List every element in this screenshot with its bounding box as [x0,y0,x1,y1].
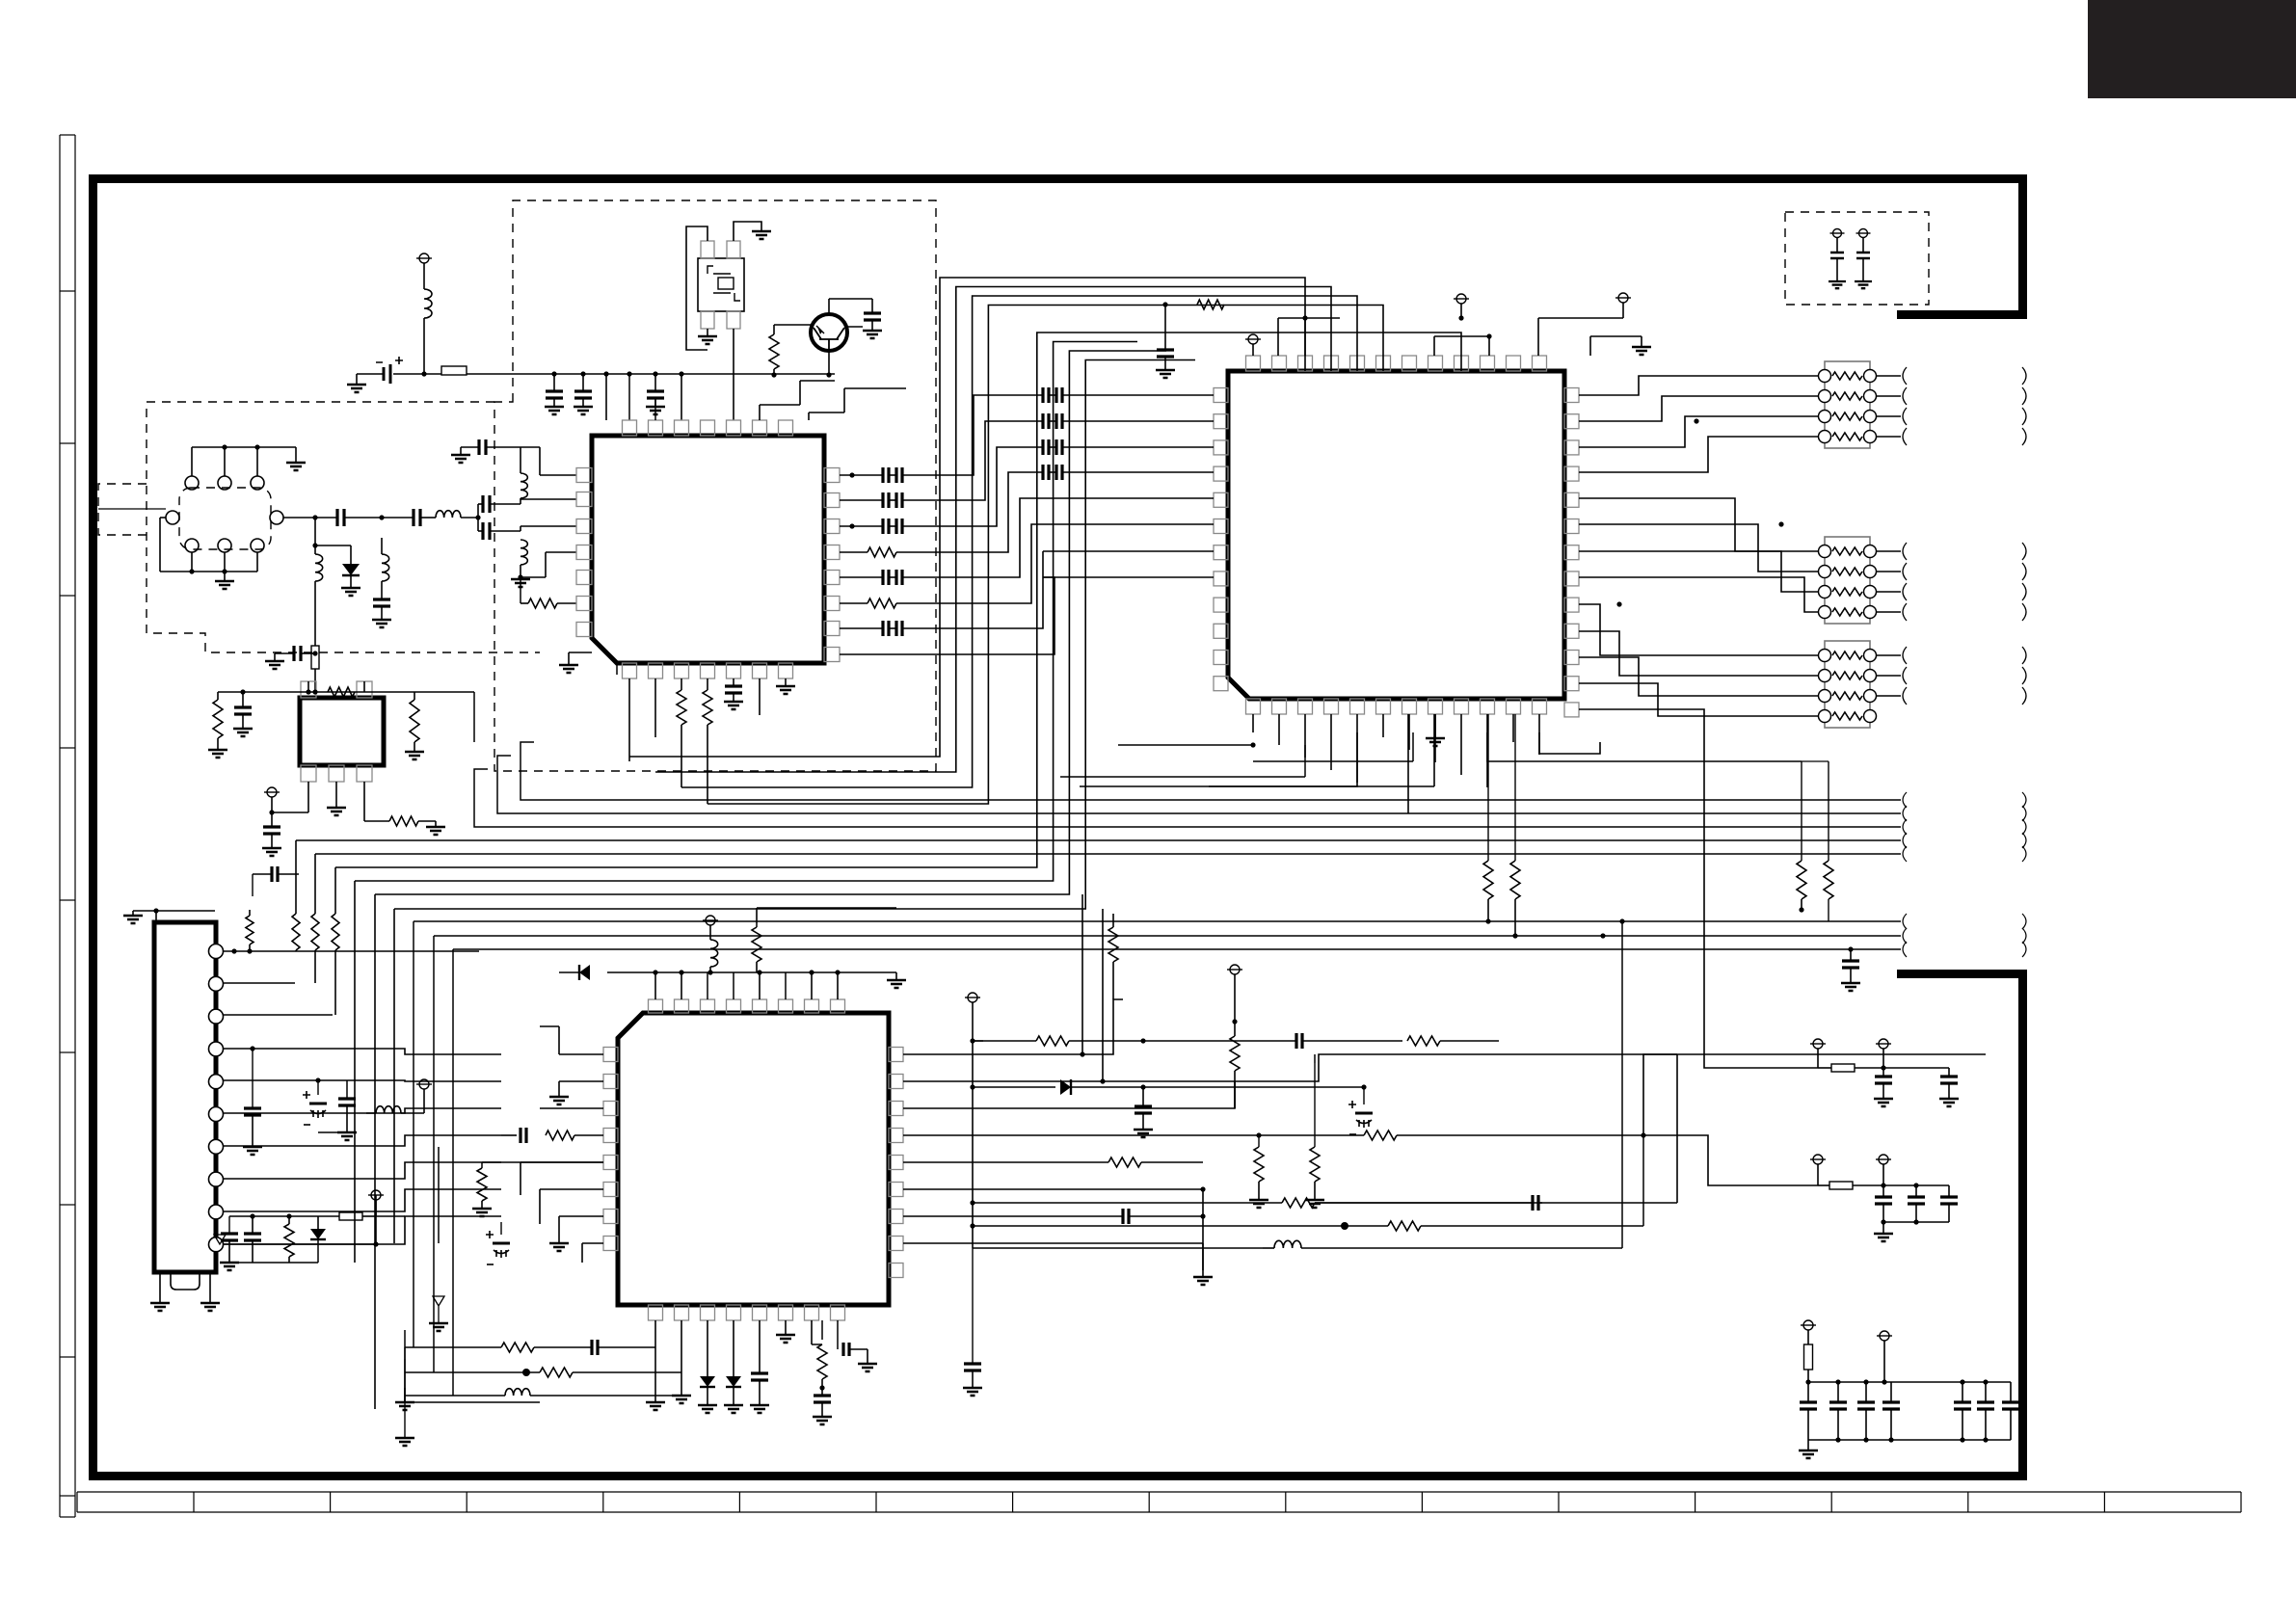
ground ll4 [228,1262,230,1264]
coupling wires U1 to U2 [964,395,1043,475]
IC4 pin bottom 3 [357,765,372,782]
IC U3 audio processor [618,1013,889,1305]
ground u3 l2 [559,1080,603,1082]
capacitor brB1 [1882,1185,1884,1197]
wire RN1 out 3 [1876,415,1901,417]
ground reg3 [414,751,415,753]
resistor R-u3l [481,1162,483,1168]
capacitor C-vcc3 [654,374,656,391]
ground u2a [1164,369,1166,371]
wire RN3 out 1 [1876,654,1901,656]
ground u3 r [1202,1243,1204,1277]
antenna input wire [98,508,166,510]
wire u3 b1 [654,1320,656,1402]
wire u3 l7 [559,1215,603,1217]
crystal wire out [733,329,734,420]
capacitor C-if1 [479,439,486,455]
resistor R-u3b [821,1320,823,1340]
wire q1 emitter [828,351,830,375]
resistor R-mid1 [973,1040,983,1042]
capacitor C-ll5 [252,1216,254,1234]
resistor R-right2 [1828,761,1829,861]
terminal u3 right [1230,965,1240,974]
capacitor brA2 [1948,1068,1950,1077]
capacitor C-mid1 [1296,1033,1302,1049]
wire right res top [1802,760,1829,762]
wire U2 right row13 to cluster A [1579,709,1818,1068]
wire reg rail ext [414,691,474,693]
tuner pin circle top 3 [251,476,264,490]
wire u3 top rail [631,971,896,973]
ground bl1 [404,1401,406,1403]
ground u1b5 [733,701,734,703]
capacitor brC2 [1837,1382,1839,1402]
resistor R-u1r6 [840,602,868,604]
tuner pin circle out [270,511,283,524]
ground U2 bottom [1434,714,1436,738]
ground reg2 [242,728,244,730]
ground if1 [460,447,462,455]
tuner top pins wire [191,447,193,476]
resistor R-reg3 [389,816,418,826]
ground J1 bottom right [209,1272,211,1303]
wire tuner agc down [314,518,316,554]
ground audio 1 [1836,280,1838,282]
wire U1 bottom pin1 [628,678,630,761]
resistor R-u3t [756,923,758,927]
off-page arc RN2 4 [1903,603,1907,621]
resistor R-u2a [1197,300,1224,309]
border frame top edge [89,174,2027,183]
off-page arc RN3 2 [1903,667,1907,684]
capacitor C-mid low [972,1248,974,1364]
capacitor C-rf1 [337,509,344,526]
wire U3 left pin1 [559,1053,603,1055]
ground q1 [871,330,873,332]
ground u3 right1 [1258,1199,1260,1201]
diode D-u3b2 [733,1320,734,1376]
capacitor brB3 [1948,1185,1950,1197]
terminal U2 t4 [1618,293,1628,303]
IC U1 left pins [576,468,592,483]
wire mid diode [973,1086,1055,1088]
capacitor C-conn mid [272,866,278,882]
resistor R-right1 [1801,761,1802,861]
wires U2 bottom pins [1252,714,1254,732]
bus drop to U3 right 1 [1081,894,1083,1054]
ground tuner bottom [224,580,226,582]
tuner pin circle bottom 2 [218,539,231,552]
tuner pin circle bottom 1 [185,539,199,552]
IC U2 top pins [1246,356,1261,371]
resistor R-u3r4 [903,1134,1243,1136]
capacitor C-audio 2 [1856,253,1870,258]
ground brA2 [1948,1098,1950,1100]
wire if1 [520,447,521,473]
terminal mid1 [968,993,977,1002]
ground bus cap [1850,982,1852,984]
wire u3 r3 [903,1081,1235,1108]
ground J1 bottom left [159,1272,161,1303]
vertical mid line [972,1041,974,1248]
fuse ll [339,1212,362,1220]
wire u3 l5 [521,1161,603,1163]
wire rf3 [461,517,478,519]
ground audio 2 [1862,280,1864,282]
IC U1 right pins [824,468,840,483]
resistor R-u3 right1 [1258,1135,1260,1147]
ground reg5 [435,821,437,827]
connector J1 pins [209,945,224,959]
IC4 pin bottom 1 [301,765,316,782]
dashed block outline around IF demod [494,200,936,771]
ground reg4 [271,847,273,849]
wire u2 b vert3 [1407,714,1409,813]
coupling caps U1 r5 [840,576,883,578]
fuse brA [1818,1067,1831,1069]
resistor R-reg-rail [328,687,355,697]
wire mid r2 [973,1225,1292,1227]
IC U1 video chroma [592,436,824,663]
wire bl2 [438,1147,440,1243]
capacitor C-rf4 [483,522,490,540]
wire u2 b vert4 [1433,714,1435,786]
bus drop to U3 right 2 [1102,909,1104,1081]
off-page arc RN3 3 [1903,687,1907,705]
wire RN2 out 3 [1876,591,1901,593]
wire rf1 [344,517,414,519]
wires U2 right to RN2 [1579,498,1818,551]
ground tuner top [295,462,297,464]
off-page brace lower L [1903,914,1907,929]
fuse brB [1818,1184,1829,1186]
antenna mark ll [214,1235,226,1244]
crystal wire loop [686,226,707,350]
wire lm2 [405,1371,505,1373]
ground ll5 [438,1322,440,1324]
wire rf to IC1 pin3 [490,530,521,532]
bus wires to off-page upper [521,742,1901,800]
border frame left edge [89,174,97,1480]
IC U3 left pins [603,1048,618,1062]
terminal ll2 [371,1190,381,1200]
IC U2 signal processor [1228,371,1564,699]
wire u3 r2 [903,1054,1677,1081]
crystal pin tr [727,241,740,258]
fuse F-vcc [424,373,441,375]
resistor network RN1 [1825,361,1870,448]
capacitor C-ll1 [252,1049,254,1108]
wire vcc to IC1 pins [605,374,607,420]
ecap u3 left [493,1242,510,1245]
IC U3 right pins [889,1048,903,1062]
capacitor C-agc3 [294,646,301,661]
terminal Vcc top [419,253,429,263]
capacitor C-u2a [1164,305,1166,350]
zone index strip left [60,134,75,136]
capacitor C-u3b2 [821,1388,823,1396]
resistor R-q1 base [774,324,813,326]
terminal brC 1 [1803,1320,1813,1330]
ground u2 right [1641,336,1642,347]
inductor L-rf [436,511,461,518]
coupling caps U1 right [840,474,883,476]
ground agc3 [274,653,276,661]
capacitor C-audio 1 [1830,253,1844,258]
ground reg pin2 [335,782,337,808]
capacitor C-reg1 [242,692,244,707]
ground J1 left sym [132,915,134,917]
wire U2 bottom right link2 [1539,732,1600,754]
transistor Q1 [811,314,847,351]
resistor R-reg2 [414,692,415,700]
ground mid low [972,1387,974,1389]
black title block [2088,0,2296,98]
capacitor C-u3b [759,1320,761,1373]
off-page arc RN3 1 [1903,647,1907,664]
wire RN2 out 1 [1876,550,1901,552]
ecap ll [309,1103,327,1105]
wire RN2 out 4 [1876,611,1901,613]
wire tuner output [283,517,337,519]
terminal audio 2 [1859,229,1868,238]
dashed audio out box top right [1785,212,1929,305]
wire link to cluster B [1643,1135,1818,1185]
wire rif [521,602,528,604]
terminal audio 1 [1833,229,1842,238]
wire u3 r1 [903,999,1123,1054]
resistor R-u1b3 [681,678,682,690]
dashed tuner inner module [179,488,271,549]
inductor L-if2 vertical [521,540,527,565]
ground reg1 [217,749,219,751]
battery icon [357,373,384,375]
inductor L-if1 vertical [521,473,527,498]
off-page arc RN1 3 [1903,408,1907,425]
resistor R-u3 right3 [1230,1036,1240,1071]
ground u3 b5 [759,1404,761,1406]
wire u3 rail drops [654,972,656,999]
junction dots bus [1619,918,1624,923]
ground u3 rail right [895,972,897,980]
capacitor brA1 [1882,1068,1884,1077]
wire lm vert [404,1347,406,1438]
resistor R-if [528,599,557,608]
wire RN3 out 2 [1876,675,1901,677]
inductor L-lm [505,1389,530,1396]
off-page arc RN1 4 [1903,428,1907,445]
wire mid r3 [973,1247,1263,1249]
wire brC bottom bus [1808,1439,2011,1441]
ground u3 b2 [681,1395,682,1397]
capacitor C-bus [1848,946,1853,951]
IC U2 left pins [1214,388,1228,403]
terminal brB 1 [1813,1155,1823,1164]
crystal pin bl [701,311,714,329]
resistor R-u3 right2 [1314,1063,1316,1147]
off-page arc RN1 1 [1903,367,1907,385]
ground agc diode [350,587,352,589]
wire bl1 [405,1359,540,1402]
wire if2 to pin4 [521,576,546,578]
capacitor C-u1b5 [733,678,734,686]
wire u3 r6 [903,1188,1203,1190]
capacitor C-vcc1 [553,374,555,391]
bus wires to off-page lower [414,920,1901,922]
central bus nested tracks [629,278,1305,757]
resistor R-reg1 [217,692,219,700]
diode D-agc [350,545,352,564]
capacitor C-reg2 [271,812,273,827]
ecap mid [1355,1112,1373,1115]
tuner pin circle left [166,511,179,524]
wire U2 bottom right link [1487,732,1802,761]
track riser U1 pin4 [707,734,708,804]
wire RN1 out 1 [1876,375,1901,377]
zone index row bottom [77,1491,2241,1493]
inductor L-vcc [424,289,432,318]
capacitor brC7 [2010,1382,2012,1402]
wire q1 top link [846,326,863,328]
wire u3 to right2 [1677,1053,1986,1055]
border frame notch bar lower [1897,970,2027,978]
junction dots right [1694,418,1698,423]
resistor network RN2 [1825,537,1870,624]
IC U1 top pins [623,420,637,436]
capacitor brB2 [1915,1185,1917,1197]
terminal reg adj [267,787,277,797]
capacitor brC1 [1807,1382,1809,1402]
dashed antenna input box [98,484,147,535]
capacitor C-q1 [864,313,881,320]
capacitor brC3 [1865,1382,1867,1402]
wire u3 r8 [903,1242,1203,1244]
terminal brA 1 [1813,1039,1823,1049]
wire u3 l8 [582,1242,603,1244]
wire rf2 [420,517,436,519]
wire reg pin3 down [363,782,365,821]
wire brC bus [1808,1381,2011,1383]
wire U2 bottom cross [1253,760,1413,762]
wire u3 to right1 [1643,1054,1677,1135]
wire mid r1 [973,1202,1282,1204]
ground u1b6 [785,678,787,686]
IC U1 bottom pins [623,663,637,678]
ground vcc left [356,374,358,385]
wire IC1 pin1 link [540,474,576,476]
wire u3 r5 [903,1161,1108,1163]
capacitor C-agc2 [373,599,390,606]
ground U1 bl [568,664,570,666]
border frame right edge lower segment [2018,970,2027,1480]
ground u3 l2 sym [558,1096,560,1098]
wire U2 bottom left link1 [1118,744,1253,746]
ground crystal top [761,230,762,232]
off-page arc RN1 2 [1903,387,1907,405]
wire RN1 out 4 [1876,436,1901,438]
tuner pin circle top 2 [218,476,231,490]
wire conn to u3 bl [224,1195,376,1244]
border frame right edge upper segment [2018,174,2027,319]
ground u3 b6 [785,1320,787,1335]
capacitor C-ll2 [244,1108,261,1115]
wire q1 collector [828,299,830,314]
wire u3t res top [756,908,758,923]
wire brB join [1883,1221,1949,1223]
wire U1 r8 [840,653,964,655]
resistor R-conn riser1 [249,945,251,951]
wire RN3 out 3 [1876,695,1901,697]
off-page brace lower R [2022,914,2026,929]
terminal brC 2 [1880,1331,1889,1341]
crystal pin tl [701,241,714,258]
wire u3 r2b [1314,1054,1316,1063]
IC4 pin bottom 2 [329,765,344,782]
wires U2 right to RN3 [1579,604,1818,655]
wire U1 bottom pin6 [759,678,761,715]
terminal U3 vcc [706,916,715,925]
junction dot conn1 [231,948,236,953]
inductor L-agc2 [382,554,389,581]
IC U3 bottom pins [649,1305,663,1320]
wire u2 t3 [1433,336,1435,356]
border frame bottom edge [89,1472,2027,1480]
ground ll2 [252,1146,254,1148]
coupling u3 l4 [578,1134,603,1136]
fuse F-agc [314,643,316,646]
wire u3 b2 [681,1320,682,1396]
off-page arc RN2 2 [1903,563,1907,580]
wire U1 top pins up [605,419,607,421]
ground brB [1882,1222,1884,1234]
capacitor C-vcc2 [582,374,584,391]
capacitor C-ll4 [228,1216,230,1234]
ground u3l [481,1208,483,1210]
off-page arc RN2 3 [1903,583,1907,600]
ground u3 b7 [821,1416,823,1418]
wire U1 bottom pin2 [654,678,656,737]
wire RN1 out 2 [1876,395,1901,397]
antenna mark ll2 [433,1296,444,1323]
wire ll2 bus [229,1215,339,1217]
resistor R-ll [288,1216,290,1224]
connector J1 body [154,922,216,1272]
diode D-u3 [607,971,631,973]
terminal brA 2 [1879,1039,1888,1049]
inductor L-u3 [710,940,718,967]
IC U3 top pins [649,999,663,1013]
wire ll cap [250,1046,254,1051]
IC4 pin top-right [357,681,372,698]
capacitor C-u3b3 [843,1343,849,1356]
tuner pin circle bottom 3 [251,539,264,552]
dashed tuner outline [147,402,540,652]
ground J1 left [155,911,157,922]
terminal ll [419,1079,429,1089]
connector J1 tab [171,1272,200,1290]
crystal module body [698,258,744,311]
central bus risers [295,840,297,914]
IC U2 bottom pins [1246,699,1261,714]
off-page brace upper R [2022,792,2026,808]
ground if2 [520,577,521,579]
wire u3 l6 [540,1188,603,1190]
capacitor brC5 [1962,1382,1963,1402]
wire U2 bottom left link2 [1060,776,1305,778]
tuner bottom pins wire [191,552,193,572]
terminal U2 vcc [1248,334,1258,344]
wire u2 t2 [1277,318,1279,356]
